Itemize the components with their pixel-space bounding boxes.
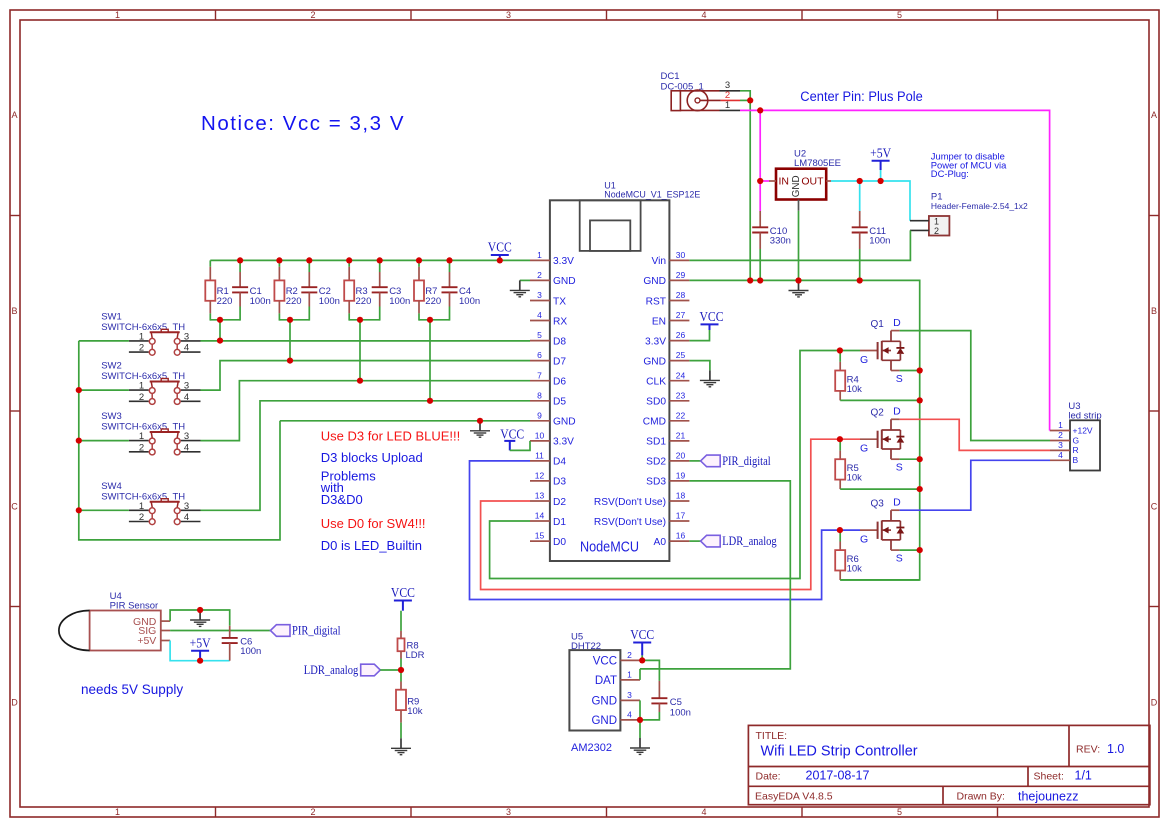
wire C10 bottom to GND row: [759, 249, 761, 281]
svg-text:1: 1: [537, 250, 542, 260]
U3 pin 4 (B): [1050, 450, 1079, 465]
wire R8 bottom to junction: [400, 659, 402, 671]
svg-text:SW4: SW4: [101, 481, 122, 492]
resistor R1 220: [205, 260, 232, 320]
power flag VCC at U5: [630, 627, 654, 655]
U3 pin 1 (+12V): [1050, 420, 1093, 435]
wire D6 net: SW3 pin3 to U1 pin7: [201, 381, 531, 441]
svg-text:VCC: VCC: [593, 655, 617, 667]
svg-text:1: 1: [627, 670, 632, 680]
U1 pin 26 (3.3V): [645, 330, 689, 347]
svg-text:17: 17: [676, 511, 686, 521]
U1 pin 23 (SD0): [646, 390, 689, 407]
svg-text:PIR_digital: PIR_digital: [722, 454, 771, 468]
U1 pin 6 (D7): [530, 350, 566, 367]
svg-text:D0: D0: [553, 537, 566, 548]
wire +5V drop to OUT net: [880, 170, 882, 181]
svg-text:A: A: [1151, 110, 1157, 120]
svg-text:10: 10: [535, 431, 545, 441]
capacitor C2 100n: [301, 260, 340, 320]
DC1 pin 2: [721, 90, 740, 101]
svg-text:100n: 100n: [869, 236, 890, 247]
resistor R9 10k: [396, 670, 423, 723]
ground at U4: [190, 610, 210, 626]
svg-text:+12V: +12V: [1073, 425, 1093, 435]
svg-text:3: 3: [184, 381, 189, 392]
svg-text:GND: GND: [553, 276, 576, 287]
svg-text:PIR_digital: PIR_digital: [292, 624, 341, 638]
svg-text:27: 27: [676, 310, 686, 320]
wire U1 pin2 GND stub: [520, 279, 530, 281]
U1 pin 10 (3.3V): [530, 431, 574, 448]
svg-text:2: 2: [1058, 430, 1063, 440]
svg-text:Header-Female-2.54_1x2: Header-Female-2.54_1x2: [931, 201, 1028, 211]
svg-text:EasyEDA V4.8.5: EasyEDA V4.8.5: [755, 791, 833, 803]
capacitor C10 330n: [752, 211, 791, 249]
wire U1 pin25 to ground: [689, 361, 710, 371]
svg-text:G: G: [860, 534, 868, 546]
U1 pin 13 (D2): [530, 491, 566, 508]
svg-text:100n: 100n: [670, 708, 691, 719]
ground at U1 pin 2: [510, 280, 530, 296]
DC1 pin 1: [720, 100, 741, 111]
resistor R8 LDR: [398, 611, 425, 661]
title block: [748, 725, 1150, 804]
svg-text:RST: RST: [646, 296, 666, 307]
wire Vin net: U1 pin30 to P1 pin2: [689, 230, 910, 260]
svg-text:GND: GND: [791, 175, 802, 197]
svg-text:4: 4: [184, 512, 189, 523]
svg-text:GND: GND: [553, 417, 576, 428]
U1 pin 2 (GND): [530, 270, 576, 287]
svg-text:Drawn By:: Drawn By:: [957, 791, 1005, 803]
capacitor C3 100n: [372, 260, 411, 320]
wire U1 pin10 to VCC hook: [510, 441, 530, 451]
svg-text:1: 1: [115, 807, 120, 817]
svg-text:3: 3: [184, 331, 189, 342]
note Use D3 for LED BLUE!!!: [321, 429, 460, 444]
transistor Q1 N-MOSFET: [860, 317, 904, 385]
svg-text:3.3V: 3.3V: [553, 256, 574, 267]
svg-text:D7: D7: [553, 356, 566, 367]
wire pull-up drop to data line: [219, 320, 221, 341]
wire U5 pin3 to pin4 and ground: [639, 700, 641, 738]
wire D7 net: SW2 pin3 to U1 pin6: [201, 361, 531, 391]
svg-text:3: 3: [627, 690, 632, 700]
net flag PIR_digital (U4 SIG): [270, 624, 341, 638]
note Jumper to disable Power of MCU via DC-Plug: [931, 151, 1007, 180]
wire U5 pin2 to C5 column: [640, 660, 659, 681]
svg-text:D1: D1: [553, 517, 566, 528]
svg-text:1: 1: [115, 10, 120, 20]
wire SW1 pin1 to GND bus: [79, 340, 129, 342]
wire SIG net to PIR_digital flag: [170, 630, 270, 632]
wire pull-up pair bottom bar: [419, 319, 450, 321]
U1 pin 16 (A0): [654, 531, 690, 548]
U1 pin 12 (D3): [530, 471, 566, 488]
svg-text:D0 is LED_Builtin: D0 is LED_Builtin: [321, 538, 422, 553]
svg-text:S: S: [896, 462, 903, 474]
wire Q3 source to GND rail: [900, 549, 920, 551]
IC U1 NodeMCU_V1_ESP12E body: [550, 181, 700, 562]
svg-text:3: 3: [1058, 440, 1063, 450]
transistor Q3 N-MOSFET: [860, 497, 904, 565]
svg-text:2: 2: [934, 226, 939, 236]
connector DC1 DC-005_1: [661, 71, 721, 111]
svg-text:26: 26: [676, 330, 686, 340]
wire D8 net: SW1 pin3 to U1 pin5: [201, 340, 531, 342]
U1 pin 3 (TX): [530, 290, 566, 307]
power flag VCC at R8: [391, 585, 415, 611]
svg-text:2017-08-17: 2017-08-17: [806, 769, 870, 783]
U1 pin 7 (D6): [530, 370, 566, 387]
svg-text:SD0: SD0: [646, 397, 666, 408]
resistor R2 220: [274, 260, 301, 320]
svg-text:14: 14: [535, 511, 545, 521]
transistor Q2 N-MOSFET: [860, 406, 904, 474]
svg-text:7: 7: [537, 370, 542, 380]
sensor U4 PIR Sensor: [59, 591, 170, 651]
svg-text:1: 1: [139, 431, 144, 442]
U1 pin 9 (GND): [530, 410, 576, 427]
wire pull-up drop to data line: [429, 320, 431, 401]
wire +12V magenta into U3 pin1: [1049, 430, 1051, 432]
svg-text:220: 220: [356, 296, 372, 307]
svg-text:25: 25: [676, 350, 686, 360]
wire GND net: U1 pin9 to GND bus: [280, 420, 530, 422]
wire D4 net: U1 pin11 to Q3 gate: [470, 461, 840, 600]
wire Q1 gate to R4: [840, 350, 860, 352]
svg-text:100n: 100n: [250, 296, 271, 307]
svg-text:4: 4: [627, 710, 632, 720]
svg-text:4: 4: [701, 807, 706, 817]
svg-text:10k: 10k: [847, 384, 863, 395]
svg-text:4: 4: [184, 442, 189, 453]
svg-text:D: D: [893, 406, 901, 418]
ground at U1 pin 25: [700, 370, 720, 386]
svg-text:VCC: VCC: [700, 309, 724, 324]
U5 pin 3 (GND): [591, 690, 640, 707]
svg-text:NodeMCU_V1_ESP12E: NodeMCU_V1_ESP12E: [604, 189, 700, 199]
svg-text:VCC: VCC: [488, 240, 512, 255]
svg-text:4: 4: [1058, 450, 1063, 460]
capacitor C6 100n: [222, 626, 262, 661]
svg-text:Sheet:: Sheet:: [1034, 771, 1064, 783]
note D3 blocks Upload: [321, 450, 423, 465]
U5 pin 2 (VCC): [593, 650, 640, 667]
svg-text:100n: 100n: [240, 646, 261, 657]
ground at R9: [391, 738, 411, 754]
svg-text:4: 4: [184, 343, 189, 354]
net flag LDR_analog (divider): [304, 663, 381, 677]
wire IN net magenta drop to U2 and C10: [760, 110, 769, 211]
svg-text:Date:: Date:: [756, 771, 781, 783]
U1 pin 27 (EN): [652, 310, 690, 327]
svg-text:D2: D2: [553, 497, 566, 508]
wire pull-up pair bottom bar: [279, 319, 309, 321]
svg-text:23: 23: [676, 390, 686, 400]
svg-text:15: 15: [535, 531, 545, 541]
svg-text:D: D: [1151, 698, 1158, 708]
U1 pin 29 (GND): [643, 270, 689, 287]
svg-text:Center Pin: Plus Pole: Center Pin: Plus Pole: [800, 89, 923, 104]
svg-text:4: 4: [701, 10, 706, 20]
svg-text:SW3: SW3: [101, 411, 122, 422]
U1 pin 1 (3.3V): [530, 250, 574, 267]
resistor R3 220: [344, 260, 371, 320]
svg-text:S: S: [896, 553, 903, 565]
svg-text:3: 3: [506, 807, 511, 817]
svg-text:21: 21: [676, 431, 686, 441]
svg-text:6: 6: [537, 350, 542, 360]
svg-text:13: 13: [535, 491, 545, 501]
svg-text:1: 1: [139, 381, 144, 392]
wire pull-up pair bottom bar: [210, 319, 240, 321]
svg-text:D6: D6: [553, 377, 566, 388]
capacitor C4 100n: [442, 260, 481, 320]
wire SW2 pin1 to GND bus: [79, 389, 129, 391]
wire U2 OUT cyan to P1 pin 1: [831, 181, 910, 221]
svg-text:2: 2: [139, 343, 144, 354]
ground at U5: [630, 738, 650, 754]
svg-text:10k: 10k: [847, 564, 863, 575]
note needs 5V Supply: [81, 682, 183, 697]
svg-text:C: C: [11, 502, 18, 512]
svg-text:1: 1: [934, 217, 939, 227]
svg-text:VCC: VCC: [630, 627, 654, 642]
U5 pin 1 (DAT): [595, 670, 640, 687]
U3 pin 2 (G): [1050, 430, 1079, 445]
svg-text:RSV(Don't Use): RSV(Don't Use): [594, 497, 666, 508]
svg-text:LDR_analog: LDR_analog: [722, 534, 777, 548]
switch SW1 SWITCH-6x6x5_TH: [101, 311, 200, 355]
resistor R6 10k: [835, 530, 862, 580]
svg-text:LDR_analog: LDR_analog: [304, 663, 359, 677]
wire VCC drop to U5 pin2: [641, 655, 643, 660]
wire DC1 pin1 (plus) magenta to U3 pin1: [740, 110, 1050, 430]
sensor U5 DHT22: [569, 632, 620, 755]
svg-text:Q2: Q2: [871, 408, 885, 419]
U1 pin 4 (RX): [530, 310, 567, 327]
svg-text:Use D0 for SW4!!!: Use D0 for SW4!!!: [321, 516, 426, 531]
svg-text:16: 16: [676, 531, 686, 541]
resistor R7 220: [414, 260, 441, 320]
svg-text:SD3: SD3: [646, 477, 666, 488]
svg-text:30: 30: [676, 250, 686, 260]
svg-text:SW1: SW1: [101, 311, 122, 322]
svg-text:100n: 100n: [319, 296, 340, 307]
connector P1 Header-Female-2.54_1x2: [910, 192, 1028, 237]
svg-text:Wifi LED Strip Controller: Wifi LED Strip Controller: [761, 744, 918, 760]
wire U4 GND loop to ground: [170, 610, 230, 626]
svg-text:11: 11: [535, 451, 544, 461]
svg-text:SD1: SD1: [646, 437, 666, 448]
svg-text:VCC: VCC: [391, 585, 415, 600]
svg-text:+5V: +5V: [190, 636, 211, 651]
note D0 is LED_Builtin: [321, 538, 422, 553]
svg-text:2: 2: [627, 650, 632, 660]
svg-text:DAT: DAT: [595, 675, 617, 687]
svg-text:RSV(Don't Use): RSV(Don't Use): [594, 517, 666, 528]
svg-text:1: 1: [139, 501, 144, 512]
svg-text:A0: A0: [654, 537, 667, 548]
svg-text:G: G: [860, 354, 868, 366]
svg-text:CLK: CLK: [646, 377, 666, 388]
capacitor C5 100n: [651, 681, 691, 719]
resistor R4 10k: [835, 351, 862, 401]
svg-text:needs 5V Supply: needs 5V Supply: [81, 682, 183, 697]
svg-text:TITLE:: TITLE:: [756, 730, 788, 742]
svg-text:330n: 330n: [770, 236, 791, 247]
svg-text:B: B: [11, 306, 17, 316]
svg-text:VCC: VCC: [500, 426, 524, 441]
svg-text:GND: GND: [643, 276, 666, 287]
svg-text:2: 2: [537, 270, 542, 280]
U1 pin 17 (RSV(Don't Use)): [594, 511, 690, 528]
svg-text:AM2302: AM2302: [571, 742, 612, 754]
U3 pin 3 (R): [1050, 440, 1079, 455]
svg-text:3: 3: [184, 501, 189, 512]
U1 pin 25 (GND): [643, 350, 689, 367]
switch SW2 SWITCH-6x6x5_TH: [101, 361, 200, 405]
wire SW4 pin1 to GND bus: [79, 509, 129, 511]
svg-text:TX: TX: [553, 296, 566, 307]
wire DC1 pin3 (GND) down to GND row: [740, 91, 750, 281]
switch SW3 SWITCH-6x6x5_TH: [101, 411, 200, 455]
U1 pin 28 (RST): [646, 290, 690, 307]
svg-text:20: 20: [676, 451, 686, 461]
wire DC1 pin2 to GND column: [740, 99, 750, 101]
svg-text:DC-Plug:: DC-Plug:: [931, 168, 969, 179]
U5 pin 4 (GND): [591, 710, 640, 727]
wire GND row: U1 pin29 to MOSFET source rail: [689, 280, 919, 580]
svg-text:2: 2: [139, 442, 144, 453]
svg-text:3: 3: [537, 290, 542, 300]
wire G net: Q1 drain to U3 pin2: [900, 331, 1050, 441]
wire GND bus left of switches: [79, 341, 280, 540]
svg-text:+5V: +5V: [870, 146, 891, 161]
wire U1 pin20 to PIR_digital flag: [689, 460, 700, 462]
svg-text:D3: D3: [553, 477, 566, 488]
svg-text:A: A: [11, 110, 17, 120]
U1 pin 22 (CMD): [643, 410, 690, 427]
svg-text:9: 9: [537, 410, 542, 420]
resistor R5 10k: [835, 439, 862, 489]
net flag LDR_analog (U1 pin 16): [701, 534, 778, 548]
switch SW4 SWITCH-6x6x5_TH: [101, 481, 200, 525]
wire R5 bottom to GND rail: [840, 488, 920, 490]
capacitor C1 100n: [232, 260, 271, 320]
wire pull-up drop to data line: [289, 320, 291, 361]
wire B net: Q3 drain to U3 pin4: [900, 460, 1050, 510]
svg-text:D4: D4: [553, 457, 566, 468]
svg-text:D8: D8: [553, 336, 566, 347]
svg-text:19: 19: [676, 471, 686, 481]
svg-text:R: R: [1073, 445, 1079, 455]
svg-text:G: G: [860, 443, 868, 455]
U1 pin 18 (RSV(Don't Use)): [594, 491, 690, 508]
svg-text:+5V: +5V: [137, 635, 156, 647]
svg-text:12: 12: [535, 471, 545, 481]
svg-text:S: S: [896, 373, 903, 385]
U1 pin 21 (SD1): [646, 431, 689, 448]
svg-text:10k: 10k: [847, 473, 863, 484]
svg-text:5: 5: [537, 330, 542, 340]
svg-text:REV:: REV:: [1076, 744, 1100, 756]
svg-text:1: 1: [1058, 420, 1063, 430]
svg-text:28: 28: [676, 290, 686, 300]
svg-text:Q3: Q3: [871, 499, 885, 510]
power flag VCC at U1 pin 10: [500, 426, 524, 450]
svg-text:NodeMCU: NodeMCU: [580, 540, 639, 556]
svg-text:Vin: Vin: [651, 256, 666, 267]
svg-text:Q1: Q1: [871, 319, 885, 330]
wire Q2 source to GND rail: [900, 458, 920, 460]
power flag VCC at 3.3V rail: [488, 240, 512, 261]
svg-text:220: 220: [286, 296, 302, 307]
svg-text:CMD: CMD: [643, 417, 666, 428]
svg-text:29: 29: [676, 270, 686, 280]
svg-text:8: 8: [537, 390, 542, 400]
svg-text:22: 22: [676, 410, 686, 420]
svg-text:thejounezz: thejounezz: [1018, 790, 1078, 804]
svg-text:LM7805EE: LM7805EE: [794, 158, 841, 169]
svg-text:5: 5: [897, 807, 902, 817]
svg-text:LDR: LDR: [406, 650, 425, 661]
U1 pin 30 (Vin): [651, 250, 689, 267]
svg-text:1: 1: [725, 100, 730, 111]
svg-text:D: D: [893, 497, 901, 509]
U1 pin 15 (D0): [530, 531, 566, 548]
svg-text:RX: RX: [553, 316, 567, 327]
wire D1 net: U1 pin14 to Q1 gate: [490, 351, 840, 579]
U1 pin 14 (D1): [530, 511, 566, 528]
svg-text:220: 220: [425, 296, 441, 307]
svg-text:3.3V: 3.3V: [645, 336, 666, 347]
svg-text:SD2: SD2: [646, 457, 666, 468]
wire U1 pin16 to LDR_analog flag: [689, 540, 700, 542]
svg-text:GND: GND: [643, 356, 666, 367]
svg-text:4: 4: [537, 310, 542, 320]
svg-text:IN: IN: [779, 176, 790, 188]
U1 pin 5 (D8): [530, 330, 566, 347]
wire Q1 source to GND rail: [900, 370, 920, 372]
svg-text:5: 5: [897, 10, 902, 20]
capacitor C11 100n: [852, 181, 891, 249]
wire U2 GND pin to GND row: [798, 211, 800, 281]
svg-text:SW2: SW2: [101, 361, 122, 372]
wire 3.3V rail to U1 pin 1: [210, 259, 530, 261]
svg-text:2: 2: [310, 10, 315, 20]
svg-text:1/1: 1/1: [1075, 769, 1092, 783]
svg-text:OUT: OUT: [801, 176, 824, 188]
svg-text:10k: 10k: [407, 706, 423, 717]
ground at U2 GND: [789, 281, 809, 297]
svg-text:3.3V: 3.3V: [553, 437, 574, 448]
note Use D0 for SW4!!!: [321, 516, 426, 531]
wire SW3 pin1 to GND bus: [79, 440, 129, 442]
svg-text:EN: EN: [652, 316, 666, 327]
svg-text:D3&D0: D3&D0: [321, 492, 363, 507]
svg-text:24: 24: [676, 370, 686, 380]
wire Q2 gate to R5: [840, 438, 860, 440]
svg-text:Notice: Vcc = 3,3 V: Notice: Vcc = 3,3 V: [201, 112, 404, 135]
svg-text:GND: GND: [591, 715, 617, 727]
wire LDR_analog flag to junction: [380, 669, 401, 671]
svg-text:220: 220: [217, 296, 233, 307]
IC U2 LM7805EE: [769, 149, 841, 211]
wire pull-up drop to data line: [359, 320, 361, 381]
